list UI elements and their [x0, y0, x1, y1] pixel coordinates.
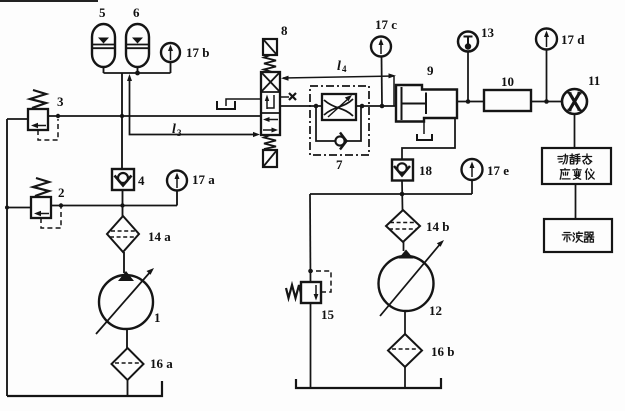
svg-text:14 a: 14 a — [148, 229, 171, 244]
svg-text:1: 1 — [154, 310, 161, 325]
junction valve2 outlet — [59, 203, 63, 207]
svg-text:12: 12 — [429, 303, 442, 318]
gauge 17b — [161, 43, 180, 62]
wire: valve 8 drain port — [226, 99, 261, 106]
flow meter 7 enclosure (chain line) — [310, 86, 369, 155]
ground: cylinder 9 drain tank symbol — [417, 134, 432, 140]
pump 1 (variable displacement) — [96, 268, 154, 334]
svg-text:8: 8 — [281, 23, 288, 38]
ground: tank (middle reservoir) — [296, 378, 441, 388]
junction gauge 17d tap — [544, 99, 549, 104]
label oscilloscope text placeholder — [562, 232, 594, 242]
svg-text:17 c: 17 c — [375, 17, 397, 32]
directional valve 8 body — [261, 72, 280, 135]
wire: valve 8 to flow meter — [280, 105, 322, 107]
spring of valve 8 (top) — [264, 55, 276, 72]
wire: cylinder 9 output to load cell — [457, 101, 484, 103]
wire: load cell to transducer 11 — [531, 101, 562, 103]
ground: valve 8 drain tank symbol — [217, 101, 235, 109]
pilot line (dashed) of valve 2 — [41, 207, 61, 228]
svg-text:17 a: 17 a — [192, 172, 215, 187]
wire: flow meter to cylinder 9 — [356, 105, 396, 107]
wire: riser from bus through check valve 4 — [121, 73, 123, 169]
svg-text:18: 18 — [419, 163, 433, 178]
wire l4: dimension line valve 8 to cylinder pipe — [281, 73, 396, 106]
gauge 17c — [371, 37, 391, 57]
wire: filter 14b to pump 12 — [403, 242, 405, 251]
wire: strain amplifier to oscilloscope — [575, 184, 577, 219]
wire: aux line valve 15 to gauge 17e — [310, 193, 472, 195]
gauge 17d — [536, 29, 557, 50]
wire: filter 14a to pump 1 — [123, 252, 125, 273]
svg-text:17 d: 17 d — [561, 32, 585, 47]
svg-text:17 b: 17 b — [186, 45, 209, 60]
junction gauge 17c tap — [380, 104, 385, 109]
wire: accumulator 5 stem — [103, 67, 105, 73]
pilot line (dashed) of valve 3 — [38, 119, 58, 140]
transducer 11 — [562, 89, 587, 114]
svg-text:l: l — [337, 59, 341, 74]
thermometer 13 — [458, 32, 478, 52]
solenoid of valve 8 (bottom) — [263, 150, 277, 167]
junction accumulator riser x upper main — [120, 114, 124, 118]
flow meter 7 measuring element — [322, 94, 356, 120]
svg-text:2: 2 — [58, 185, 65, 200]
accumulator 6 — [126, 24, 149, 67]
wire: cylinder 9 drain stem — [423, 122, 425, 135]
svg-text:15: 15 — [321, 307, 335, 322]
svg-text:3: 3 — [57, 94, 64, 109]
wire: gauge 17b stem — [170, 62, 172, 73]
load cell 10 — [484, 90, 531, 111]
wire l3: valve 8 to accumulator bus — [127, 74, 260, 137]
svg-text:7: 7 — [336, 157, 343, 172]
label strain amplifier text placeholder — [558, 154, 594, 179]
ground: tank (left reservoir) — [7, 381, 162, 396]
svg-text:6: 6 — [133, 5, 140, 20]
junction valve3 outlet — [56, 114, 60, 118]
filter 14b — [386, 210, 420, 242]
check valve in flow meter 7 bypass — [335, 133, 346, 150]
junction valve 15 pilot tap — [308, 269, 313, 274]
svg-text:17 e: 17 e — [487, 163, 509, 178]
junction pump 12 output node — [400, 192, 405, 197]
pilot line (dashed) of valve 15 — [312, 271, 331, 292]
wire: bypass return — [347, 106, 362, 141]
wire: filter 16b to tank — [404, 367, 406, 388]
svg-text:4: 4 — [138, 173, 145, 188]
wire: check valve 18 to filter 14b — [401, 181, 404, 211]
pump 12 (variable displacement) — [379, 240, 445, 316]
wire: left drain vertical to tank — [6, 119, 8, 396]
svg-text:11: 11 — [588, 73, 600, 88]
check valve 4 — [112, 169, 134, 190]
wire: gauge 17a stem — [176, 191, 178, 206]
filter 14a — [107, 216, 139, 252]
wire: accumulator 6 stem — [137, 67, 139, 73]
svg-text:4: 4 — [342, 64, 347, 74]
wire: gauge 17d stem — [546, 50, 548, 102]
gauge 17e — [462, 159, 483, 180]
svg-text:9: 9 — [427, 63, 434, 78]
wire: gauge 17c stem — [381, 57, 384, 107]
spring of valve 8 (bottom) — [264, 135, 276, 150]
cylinder 9 — [396, 85, 457, 122]
svg-text:13: 13 — [481, 25, 495, 40]
svg-text:14 b: 14 b — [426, 219, 449, 234]
junction riser x lower line — [120, 203, 124, 207]
relief valve 3 — [28, 90, 48, 130]
junction accumulator bus — [135, 71, 140, 76]
wire: gauge 17e stem — [471, 180, 473, 194]
oscilloscope box — [544, 219, 612, 252]
wire: down to valve 15 — [309, 194, 312, 282]
svg-text:l: l — [172, 122, 176, 137]
relief valve 15 — [286, 282, 321, 303]
wire: thermometer 13 stem — [467, 52, 469, 102]
filter 16b — [388, 334, 422, 367]
blocked port mark X at valve 8 — [281, 93, 296, 100]
wire: transducer 11 to strain amplifier — [574, 114, 576, 148]
wire: upper main line valve3 to valve8 — [48, 115, 261, 117]
wire: lower line valve2 to gauge 17a — [51, 205, 177, 207]
wire: cylinder 9 lower port to check valve 18 — [402, 118, 455, 160]
gauge 17a — [167, 171, 187, 191]
wire: pump 12 suction — [404, 311, 406, 334]
junction drain/valve2 — [5, 206, 9, 210]
wire: filter 16a to tank — [127, 380, 129, 396]
svg-text:5: 5 — [99, 5, 106, 20]
junction thermometer 13 tap — [466, 99, 471, 104]
wire: riser below check valve 4 to filter 14a — [122, 190, 124, 216]
wire: valve 3 left port to drain line — [7, 118, 28, 120]
solenoid of valve 8 (top) — [263, 39, 277, 55]
svg-text:3: 3 — [177, 128, 182, 138]
wire: bypass of flow meter 7 — [316, 106, 335, 141]
wire: pump 1 suction — [126, 329, 128, 348]
accumulator 5 — [92, 24, 115, 67]
svg-text:16 a: 16 a — [150, 356, 173, 371]
check valve 18 — [392, 160, 413, 181]
svg-text:10: 10 — [501, 74, 514, 89]
wire: accumulator bus — [104, 72, 171, 74]
strain amplifier box — [542, 148, 611, 184]
svg-text:16 b: 16 b — [431, 344, 454, 359]
relief valve 2 — [31, 178, 51, 218]
wire: valve 15 drain to tank — [310, 303, 312, 388]
junction flow meter right — [360, 104, 365, 109]
wire: valve 2 left port to drain line — [7, 207, 31, 209]
scan artifact top edge line — [0, 0, 98, 2]
filter 16a — [112, 348, 144, 380]
junction flow meter left — [314, 104, 319, 109]
